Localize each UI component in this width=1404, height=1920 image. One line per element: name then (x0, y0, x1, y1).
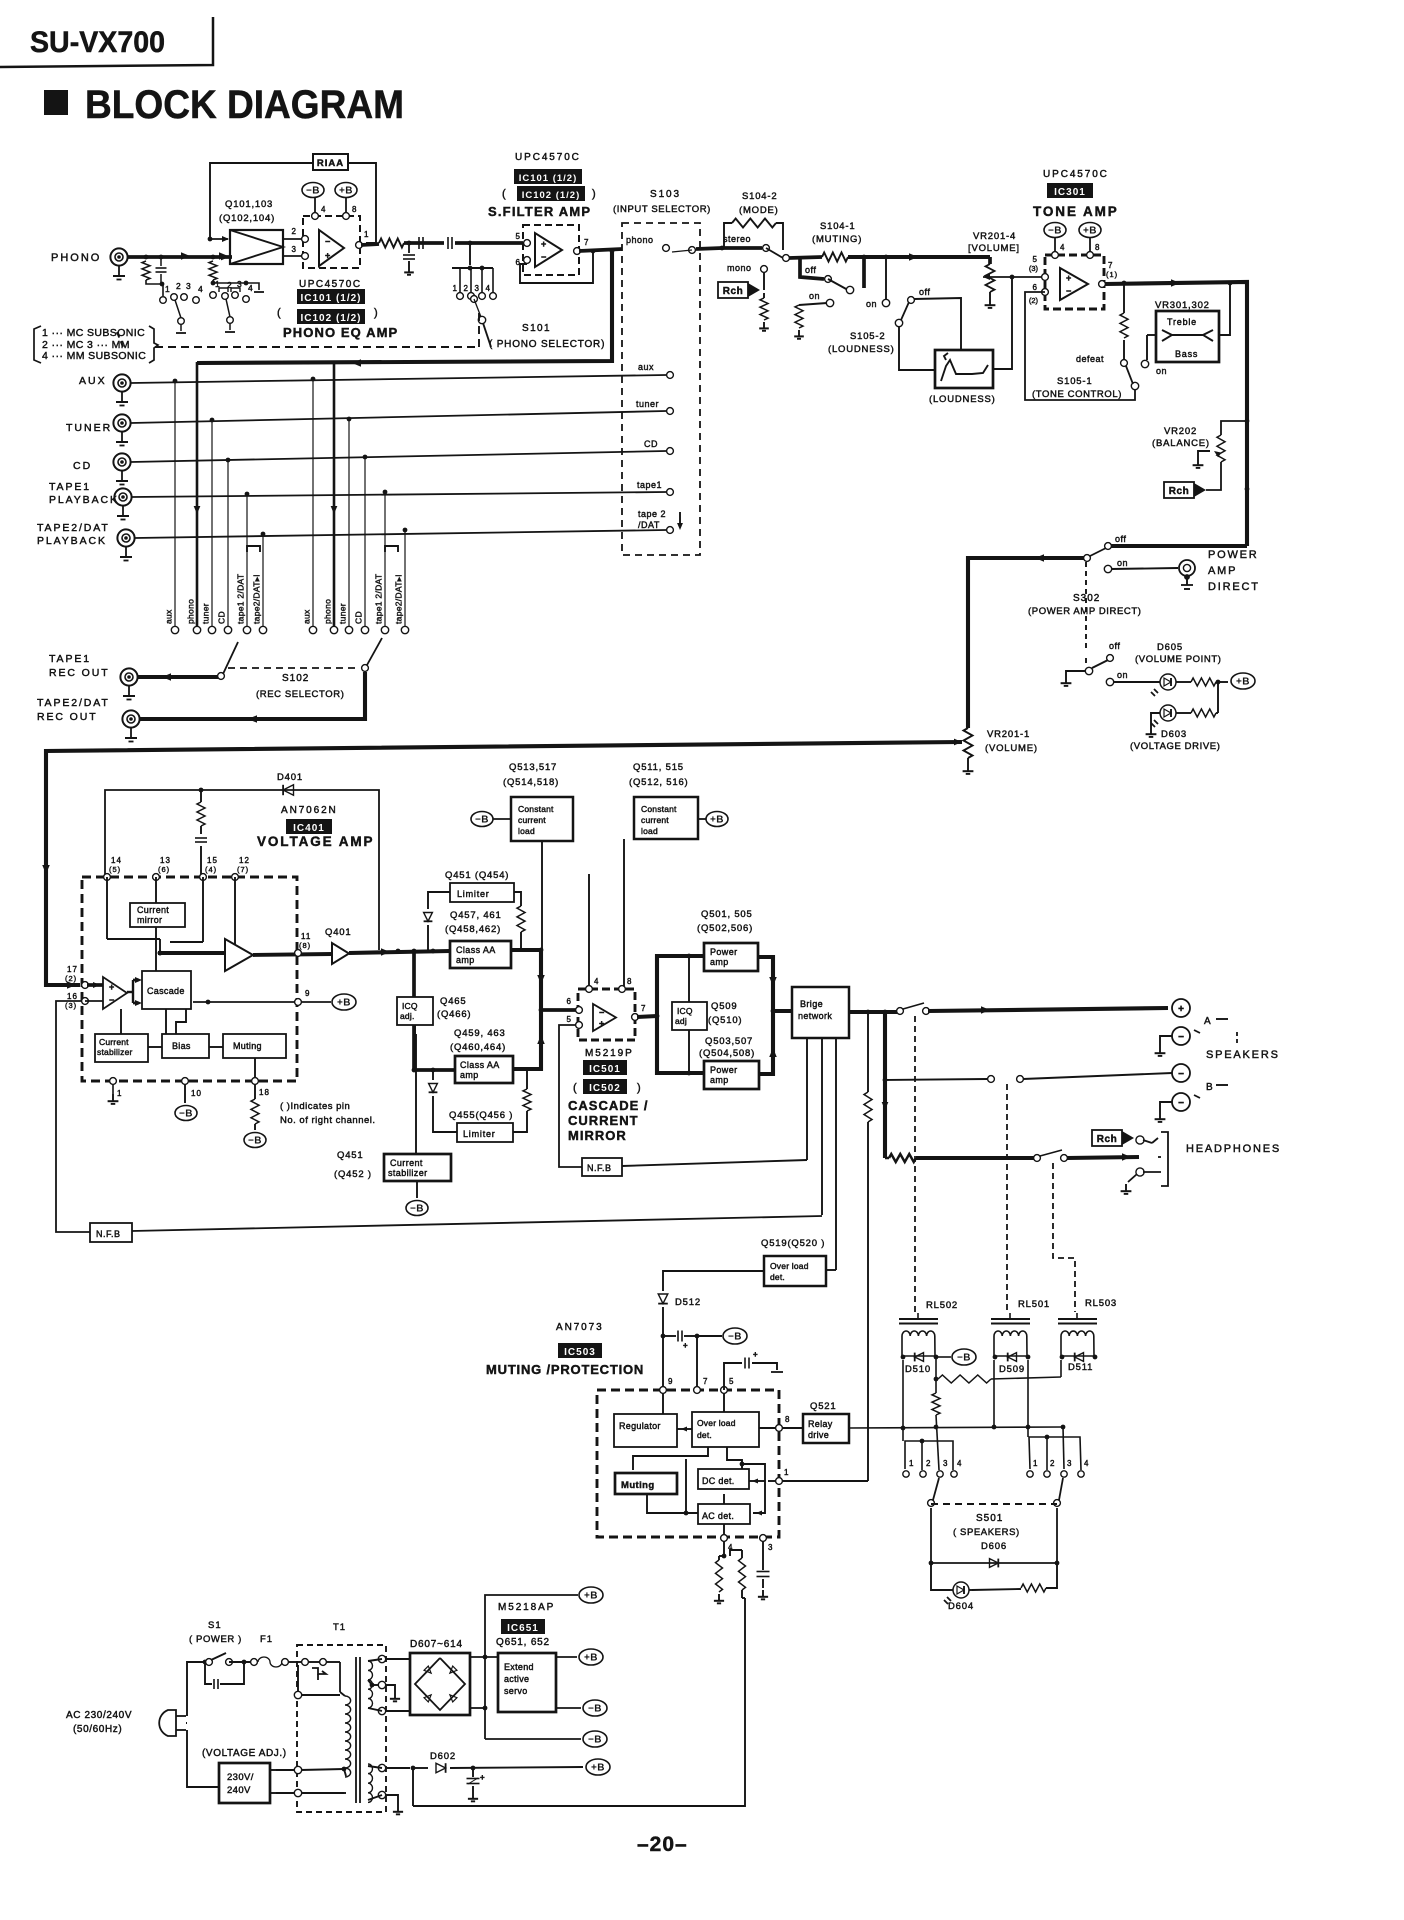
svg-text:−: − (1178, 1032, 1184, 1043)
svg-text:7: 7 (641, 1004, 646, 1013)
svg-text:+B: +B (591, 1763, 605, 1774)
svg-text:1: 1 (165, 284, 170, 294)
svg-text:16: 16 (67, 992, 78, 1001)
svg-text:phono: phono (186, 599, 196, 624)
svg-text:UPC4570C: UPC4570C (515, 152, 581, 163)
svg-text:7: 7 (584, 238, 589, 247)
svg-text:Muting: Muting (233, 1041, 262, 1051)
svg-text:tuner: tuner (201, 603, 211, 624)
svg-text:TAPE1: TAPE1 (49, 481, 91, 493)
svg-text:−: − (541, 252, 546, 262)
svg-text:S103: S103 (650, 189, 681, 200)
svg-text:(Q460,464): (Q460,464) (450, 1042, 506, 1053)
svg-text:IC651: IC651 (507, 1623, 539, 1634)
svg-text:+B: +B (1083, 226, 1097, 237)
svg-text:6: 6 (567, 997, 572, 1006)
svg-text:3: 3 (475, 284, 480, 293)
svg-text:load: load (641, 826, 658, 836)
svg-text:−: − (599, 1008, 604, 1018)
svg-text:Class AA: Class AA (456, 945, 496, 955)
svg-text:Rch: Rch (723, 286, 743, 297)
svg-text:Rch: Rch (1097, 1134, 1117, 1145)
svg-text:(VOLUME POINT): (VOLUME POINT) (1135, 654, 1222, 665)
svg-text:adj: adj (675, 1016, 687, 1026)
svg-text:Power: Power (710, 947, 738, 957)
svg-text:2: 2 (464, 284, 469, 293)
svg-text:REC OUT: REC OUT (37, 711, 98, 723)
svg-text:1: 1 (364, 230, 369, 239)
svg-text:IC502: IC502 (589, 1083, 621, 1094)
svg-text:tape 2: tape 2 (638, 509, 666, 519)
svg-text:on: on (866, 299, 877, 309)
svg-text:stereo: stereo (723, 234, 751, 244)
svg-text:(: ( (502, 188, 507, 200)
svg-text:+B: +B (710, 815, 724, 826)
svg-text:−B: −B (475, 815, 489, 826)
svg-text:Bias: Bias (172, 1041, 191, 1051)
svg-text:BLOCK DIAGRAM: BLOCK DIAGRAM (85, 83, 404, 127)
svg-text:10: 10 (191, 1089, 202, 1098)
svg-text:D510: D510 (905, 1364, 931, 1375)
svg-text:IC102 (1/2): IC102 (1/2) (300, 313, 361, 324)
svg-text:+: + (1178, 1004, 1184, 1015)
svg-text:−B: −B (410, 1204, 424, 1215)
svg-text:VR201-1: VR201-1 (987, 729, 1030, 740)
svg-text:SPEAKERS: SPEAKERS (1206, 1049, 1280, 1061)
svg-text:D509: D509 (999, 1364, 1025, 1375)
svg-text:Over load: Over load (697, 1418, 736, 1428)
svg-text:4: 4 (198, 284, 203, 294)
svg-text:CD: CD (644, 439, 658, 449)
svg-text:(VOLUME): (VOLUME) (985, 743, 1038, 754)
svg-text:drive: drive (808, 1430, 829, 1440)
svg-text:4: 4 (321, 205, 326, 214)
svg-text:MIRROR: MIRROR (568, 1128, 627, 1143)
svg-text:D605: D605 (1157, 642, 1183, 653)
svg-text:(REC SELECTOR): (REC SELECTOR) (256, 689, 344, 700)
svg-text:(4): (4) (205, 865, 217, 874)
svg-text:off: off (1109, 641, 1120, 651)
svg-text:D603: D603 (1161, 729, 1187, 740)
svg-text:Constant: Constant (641, 804, 677, 814)
svg-text:8: 8 (627, 977, 632, 986)
svg-text:ICQ: ICQ (402, 1001, 418, 1011)
svg-text:Muting: Muting (621, 1480, 655, 1491)
svg-text:(Q466): (Q466) (437, 1009, 471, 1020)
svg-text:Treble: Treble (1167, 317, 1197, 327)
svg-text:POWER: POWER (1208, 549, 1259, 561)
svg-text:3: 3 (186, 281, 191, 291)
svg-text:+: + (1066, 273, 1071, 283)
svg-text:3: 3 (292, 245, 297, 254)
svg-text:(1): (1) (1106, 270, 1118, 279)
svg-text:240V: 240V (227, 1785, 251, 1796)
svg-text:9: 9 (305, 989, 310, 998)
svg-text:(LOUDNESS): (LOUDNESS) (929, 394, 996, 405)
svg-text:F1: F1 (260, 1634, 273, 1645)
svg-text:1 ··· MC SUBSONIC: 1 ··· MC SUBSONIC (42, 327, 145, 339)
svg-text:PLAYBACK: PLAYBACK (37, 535, 107, 547)
svg-text:−B: −B (1048, 226, 1062, 237)
svg-text:8: 8 (785, 1415, 790, 1424)
svg-text:SU-VX700: SU-VX700 (30, 26, 165, 59)
svg-text:+: + (109, 982, 114, 992)
svg-text:CD: CD (217, 611, 227, 624)
svg-text:AUX: AUX (79, 375, 107, 387)
svg-text:VR301,302: VR301,302 (1155, 300, 1210, 311)
svg-text:(TONE CONTROL): (TONE CONTROL) (1032, 389, 1122, 400)
svg-text:Current: Current (390, 1158, 423, 1168)
svg-text:D602: D602 (430, 1751, 456, 1762)
svg-text:IC401: IC401 (293, 823, 325, 834)
svg-text:2: 2 (292, 227, 297, 236)
svg-text:D604: D604 (948, 1601, 974, 1612)
svg-text:IC301: IC301 (1054, 187, 1086, 198)
svg-text:(Q510): (Q510) (708, 1015, 742, 1026)
svg-text:−B: −B (179, 1109, 193, 1120)
svg-text:PHONO EQ AMP: PHONO EQ AMP (283, 325, 398, 340)
svg-text:S105-1: S105-1 (1057, 376, 1092, 387)
svg-text:tape1 2/DAT: tape1 2/DAT (236, 574, 246, 624)
svg-text:Bass: Bass (1175, 349, 1198, 359)
svg-text:Q459, 463: Q459, 463 (454, 1028, 506, 1039)
svg-text:RL501: RL501 (1018, 1299, 1050, 1310)
svg-text:Relay: Relay (808, 1419, 833, 1429)
svg-text:S501: S501 (976, 1513, 1003, 1524)
svg-text:14: 14 (111, 856, 122, 865)
svg-text:+B: +B (584, 1591, 598, 1602)
svg-text:Q465: Q465 (440, 996, 466, 1007)
svg-text:(Q502,506): (Q502,506) (697, 923, 753, 934)
svg-text:IC501: IC501 (589, 1064, 621, 1075)
svg-text:D511: D511 (1068, 1362, 1093, 1373)
svg-text:( PHONO SELECTOR): ( PHONO SELECTOR) (489, 339, 605, 350)
svg-text:−: − (1066, 286, 1071, 296)
svg-text:( POWER ): ( POWER ) (189, 1634, 242, 1645)
svg-text:TUNER: TUNER (66, 422, 112, 434)
svg-text:CD: CD (354, 611, 364, 624)
svg-text:18: 18 (259, 1088, 270, 1097)
svg-text:VR201-4: VR201-4 (973, 231, 1016, 242)
svg-text:N.F.B: N.F.B (587, 1163, 612, 1173)
svg-text:9: 9 (668, 1377, 673, 1386)
svg-text:4: 4 (248, 283, 253, 293)
svg-text:aux: aux (638, 362, 654, 372)
svg-text:Q651, 652: Q651, 652 (496, 1637, 550, 1648)
svg-text:PHONO: PHONO (51, 252, 101, 264)
svg-text:+: + (683, 1341, 688, 1350)
svg-text:Constant: Constant (518, 804, 554, 814)
svg-text:1: 1 (784, 1468, 789, 1477)
svg-text:(5): (5) (109, 865, 121, 874)
svg-text:1: 1 (909, 1459, 914, 1468)
svg-text:5: 5 (729, 1377, 734, 1386)
svg-text:PLAYBACK: PLAYBACK (49, 494, 119, 506)
svg-text:−B: −B (588, 1704, 602, 1715)
svg-text:mono: mono (727, 263, 752, 273)
svg-text:AC det.: AC det. (702, 1511, 734, 1521)
svg-text:−B: −B (248, 1136, 262, 1147)
svg-text:mirror: mirror (137, 915, 162, 925)
svg-text:): ) (592, 188, 597, 200)
svg-text:det.: det. (770, 1272, 785, 1282)
svg-text:(Q102,104): (Q102,104) (219, 213, 275, 224)
svg-text:tape1 2/DAT: tape1 2/DAT (374, 574, 384, 624)
svg-text:active: active (504, 1674, 529, 1684)
svg-text:S104-2: S104-2 (742, 191, 777, 202)
svg-text:load: load (518, 826, 535, 836)
svg-text:(Q514,518): (Q514,518) (503, 777, 559, 788)
svg-text:AMP: AMP (1208, 565, 1237, 577)
svg-text:–20–: –20– (637, 1833, 688, 1856)
svg-text:VR202: VR202 (1164, 426, 1197, 437)
svg-text:4: 4 (486, 284, 491, 293)
svg-text:+B: +B (584, 1653, 598, 1664)
svg-text:3: 3 (1067, 1459, 1072, 1468)
svg-text:Q401: Q401 (325, 927, 351, 938)
svg-text:3: 3 (768, 1543, 773, 1552)
svg-text:−B: −B (957, 1353, 971, 1364)
svg-text:network: network (798, 1011, 832, 1021)
svg-text:17: 17 (67, 965, 78, 974)
svg-text:−: − (109, 995, 114, 1005)
svg-text:AN7073: AN7073 (556, 1322, 604, 1333)
svg-text:S.FILTER AMP: S.FILTER AMP (488, 204, 591, 219)
svg-text:Q451 (Q454): Q451 (Q454) (445, 870, 509, 881)
svg-text:stabilizer: stabilizer (97, 1047, 133, 1057)
svg-text:3: 3 (943, 1459, 948, 1468)
svg-text:12: 12 (239, 856, 250, 865)
svg-text:(Q504,508): (Q504,508) (699, 1048, 755, 1059)
svg-text:4: 4 (594, 977, 599, 986)
svg-text:+: + (480, 1773, 485, 1782)
svg-text:RL502: RL502 (926, 1300, 958, 1311)
svg-text:D606: D606 (981, 1541, 1007, 1552)
svg-text:A: A (1204, 1016, 1212, 1027)
svg-text:S101: S101 (522, 323, 551, 334)
svg-text:amp: amp (456, 955, 475, 965)
svg-text:CD: CD (73, 460, 92, 472)
svg-text:aux: aux (164, 609, 174, 624)
svg-text:DIRECT: DIRECT (1208, 581, 1260, 593)
svg-text:M5219P: M5219P (585, 1048, 634, 1059)
svg-text:(VOLTAGE ADJ.): (VOLTAGE ADJ.) (202, 1748, 287, 1759)
svg-text:Q455(Q456 ): Q455(Q456 ) (449, 1110, 513, 1121)
svg-text:adj.: adj. (400, 1011, 415, 1021)
svg-text:AC 230/240V: AC 230/240V (66, 1710, 132, 1721)
svg-text:+: + (599, 1018, 604, 1028)
svg-text:(Q452 ): (Q452 ) (334, 1169, 372, 1180)
svg-text:Extend: Extend (504, 1662, 534, 1672)
svg-text:on: on (1117, 558, 1128, 568)
svg-text:Q457, 461: Q457, 461 (450, 910, 502, 921)
svg-text:TAPE1: TAPE1 (49, 653, 91, 665)
svg-text:(2): (2) (1029, 296, 1039, 305)
svg-text:UPC4570C: UPC4570C (299, 279, 362, 290)
svg-text:Q511, 515: Q511, 515 (633, 762, 684, 773)
svg-text:on: on (809, 291, 820, 301)
svg-text:tape2/DAT▸I: tape2/DAT▸I (394, 574, 404, 624)
svg-text:1: 1 (117, 1089, 122, 1098)
svg-text:( SPEAKERS): ( SPEAKERS) (953, 1527, 1020, 1538)
svg-text:tape2/DAT▸I: tape2/DAT▸I (252, 574, 262, 624)
svg-text:CURRENT: CURRENT (568, 1113, 639, 1128)
svg-text:(Q512, 516): (Q512, 516) (629, 777, 689, 788)
svg-text:(3): (3) (65, 1001, 77, 1010)
svg-text:REC OUT: REC OUT (49, 667, 110, 679)
svg-text:HEADPHONES: HEADPHONES (1186, 1143, 1281, 1155)
svg-text:off: off (805, 265, 816, 275)
svg-text:off: off (1115, 534, 1126, 544)
svg-text:det.: det. (697, 1430, 712, 1440)
svg-text:[VOLUME]: [VOLUME] (968, 243, 1020, 254)
svg-text:5: 5 (1033, 255, 1038, 264)
svg-text:on: on (1156, 366, 1167, 376)
svg-text:AN7062N: AN7062N (281, 805, 338, 816)
svg-text:M5218AP: M5218AP (498, 1602, 555, 1613)
svg-text:MUTING /PROTECTION: MUTING /PROTECTION (486, 1362, 644, 1377)
svg-text:servo: servo (504, 1686, 528, 1696)
svg-text:(Q458,462): (Q458,462) (445, 924, 501, 935)
svg-text:Limiter: Limiter (457, 889, 490, 899)
svg-text:(8): (8) (299, 941, 311, 950)
svg-text:aux: aux (302, 609, 312, 624)
svg-text:S302: S302 (1073, 593, 1100, 604)
svg-text:−B: −B (728, 1332, 742, 1343)
svg-text:( )Indicates pin: ( )Indicates pin (280, 1101, 350, 1112)
svg-text:current: current (518, 815, 546, 825)
svg-text:N.F.B: N.F.B (96, 1229, 121, 1239)
svg-text:UPC4570C: UPC4570C (1043, 169, 1109, 180)
svg-text:S102: S102 (282, 673, 309, 684)
svg-text:tuner: tuner (338, 603, 348, 624)
svg-text:(MODE): (MODE) (739, 205, 779, 216)
svg-text:(2): (2) (65, 974, 77, 983)
svg-text:phono: phono (626, 235, 654, 245)
svg-text:ICQ: ICQ (677, 1006, 693, 1016)
svg-text:15: 15 (207, 856, 218, 865)
svg-text:IC101 (1/2): IC101 (1/2) (519, 173, 578, 184)
svg-text:Over load: Over load (770, 1261, 809, 1271)
svg-text:IC102 (1/2): IC102 (1/2) (522, 190, 581, 201)
svg-text:D512: D512 (675, 1297, 701, 1308)
svg-text:Rch: Rch (1169, 486, 1189, 497)
svg-text:No. of right channel.: No. of right channel. (280, 1115, 376, 1126)
svg-text:5: 5 (516, 232, 521, 241)
svg-text:6: 6 (1033, 283, 1038, 292)
svg-text:Q101,103: Q101,103 (225, 199, 273, 210)
svg-text:phono: phono (323, 599, 333, 624)
svg-text:(3): (3) (1029, 264, 1039, 273)
svg-text:7: 7 (703, 1377, 708, 1386)
svg-text:D607~614: D607~614 (410, 1639, 463, 1650)
svg-text:−B: −B (306, 186, 320, 197)
svg-text:(VOLTAGE DRIVE): (VOLTAGE DRIVE) (1130, 741, 1220, 752)
svg-text:(7): (7) (237, 865, 249, 874)
svg-text:Regulator: Regulator (619, 1421, 661, 1431)
svg-text:T1: T1 (333, 1622, 346, 1633)
svg-text:Q519(Q520 ): Q519(Q520 ) (761, 1238, 825, 1249)
svg-text:(: ( (573, 1082, 578, 1094)
svg-text:IC101 (1/2): IC101 (1/2) (300, 293, 361, 304)
svg-text:B: B (1206, 1082, 1214, 1093)
svg-text:Q503,507: Q503,507 (705, 1036, 753, 1047)
svg-text:4: 4 (1060, 243, 1065, 252)
svg-text:): ) (637, 1082, 642, 1094)
svg-text:8: 8 (1095, 243, 1100, 252)
svg-text:CASCADE /: CASCADE / (568, 1098, 649, 1113)
svg-text:4 ··· MM SUBSONIC: 4 ··· MM SUBSONIC (42, 350, 146, 362)
svg-text:+B: +B (337, 998, 351, 1009)
svg-text:TAPE2/DAT: TAPE2/DAT (37, 522, 110, 534)
svg-text:1: 1 (1033, 1459, 1038, 1468)
svg-text:RIAA: RIAA (317, 158, 344, 169)
svg-text:S1: S1 (208, 1620, 222, 1631)
svg-text:Q521: Q521 (810, 1401, 836, 1412)
svg-text:defeat: defeat (1076, 354, 1104, 364)
svg-text:amp: amp (460, 1070, 479, 1080)
svg-text:amp: amp (710, 957, 729, 967)
svg-text:Brige: Brige (800, 999, 823, 1009)
svg-text:tape1: tape1 (637, 480, 662, 490)
svg-text:11: 11 (301, 932, 311, 941)
svg-text:off: off (919, 287, 930, 297)
svg-text:2: 2 (926, 1459, 931, 1468)
svg-text:Current: Current (99, 1037, 129, 1047)
svg-text:S105-2: S105-2 (850, 331, 885, 342)
svg-text:Cascade: Cascade (147, 986, 185, 996)
svg-text:−B: −B (588, 1735, 602, 1746)
svg-text:−: − (1178, 1098, 1184, 1109)
svg-text:(BALANCE): (BALANCE) (1152, 438, 1210, 449)
svg-text:Current: Current (137, 905, 169, 915)
svg-text:+: + (541, 239, 546, 249)
svg-text:(LOUDNESS): (LOUDNESS) (828, 344, 895, 355)
svg-text:Power: Power (710, 1065, 738, 1075)
svg-text:(6): (6) (158, 865, 170, 874)
svg-text:tuner: tuner (636, 399, 659, 409)
svg-text:4: 4 (957, 1459, 962, 1468)
svg-text:2: 2 (176, 281, 181, 291)
svg-text:(50/60Hz): (50/60Hz) (73, 1724, 122, 1735)
svg-text:+B: +B (1236, 677, 1250, 688)
svg-text:+: + (325, 250, 330, 260)
svg-text:(POWER AMP DIRECT): (POWER AMP DIRECT) (1028, 606, 1142, 617)
svg-text:4: 4 (1084, 1459, 1089, 1468)
svg-text:RL503: RL503 (1085, 1298, 1117, 1309)
svg-text:/DAT: /DAT (638, 520, 660, 530)
svg-text:current: current (641, 815, 669, 825)
svg-text:VOLTAGE AMP: VOLTAGE AMP (257, 834, 374, 849)
svg-text:(MUTING): (MUTING) (812, 234, 862, 245)
svg-text:−: − (1178, 1069, 1184, 1080)
svg-text:on: on (1117, 670, 1128, 680)
svg-text:Q451: Q451 (337, 1150, 363, 1161)
svg-text:DC det.: DC det. (702, 1476, 735, 1486)
svg-text:+B: +B (339, 186, 353, 197)
svg-text:230V/: 230V/ (227, 1772, 254, 1783)
svg-text:Limiter: Limiter (463, 1129, 496, 1139)
svg-text:7: 7 (1108, 261, 1113, 270)
svg-text:1: 1 (453, 284, 458, 293)
svg-text:+: + (753, 1350, 758, 1359)
svg-text:TONE AMP: TONE AMP (1033, 204, 1119, 219)
svg-text:13: 13 (160, 856, 171, 865)
svg-text:IC503: IC503 (564, 1347, 596, 1358)
svg-text:(: ( (277, 307, 282, 319)
svg-text:S104-1: S104-1 (820, 221, 855, 232)
svg-text:TAPE2/DAT: TAPE2/DAT (37, 697, 110, 709)
